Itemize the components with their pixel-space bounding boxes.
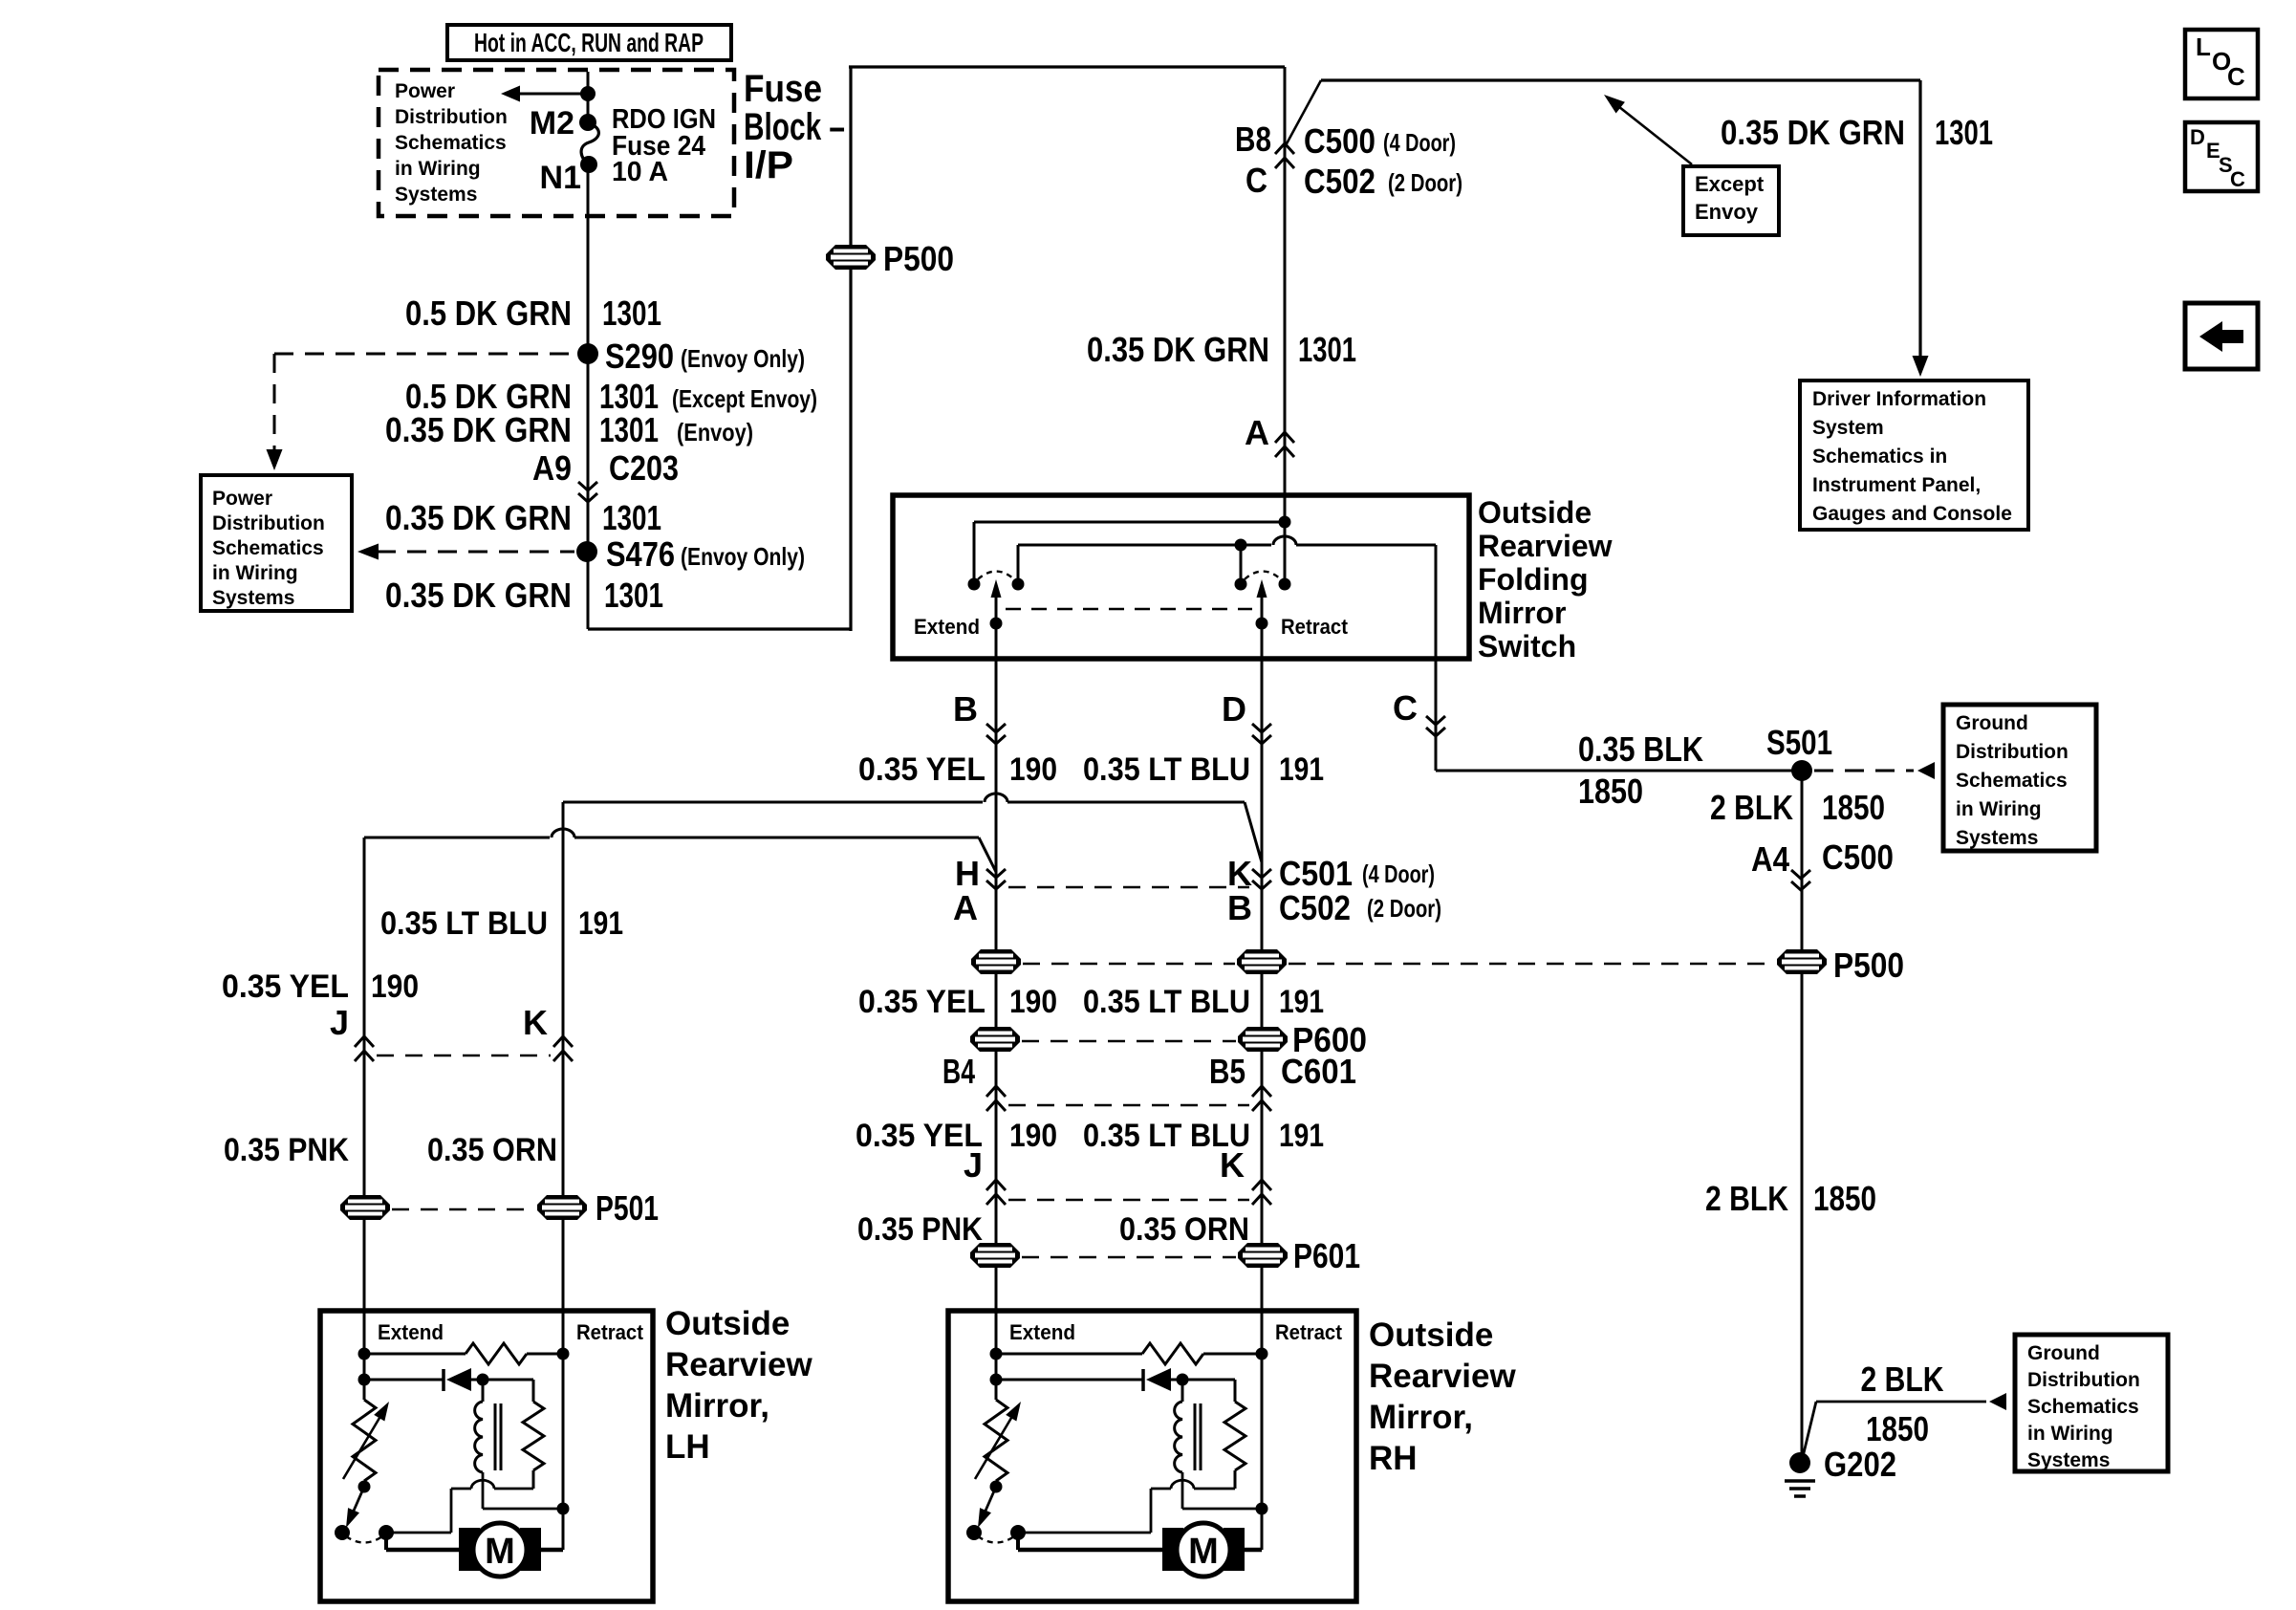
- label: 0.35 DK GRN 1301 (bottom): [385, 576, 663, 615]
- wire: coil to retract (RH): [1182, 1472, 1262, 1509]
- splice S501: [1766, 723, 1832, 781]
- svg-text:Distribution: Distribution: [1956, 741, 2069, 763]
- label: 2 BLK 1850 (lower): [1705, 1179, 1876, 1218]
- svg-text:B5: B5: [1209, 1052, 1245, 1091]
- relay coil (LH): [475, 1380, 501, 1472]
- switch contacts extend: [968, 578, 1025, 591]
- wire: YEL branch rail to LH (lower): [364, 829, 996, 872]
- svg-text:Fuse: Fuse: [744, 68, 822, 110]
- svg-text:0.35 DK GRN: 0.35 DK GRN: [385, 498, 572, 537]
- svg-text:Schematics: Schematics: [212, 537, 324, 559]
- connector P500 pass-through (right): [1237, 949, 1287, 974]
- connector P501 (left): [340, 1195, 390, 1220]
- svg-text:0.35 YEL: 0.35 YEL: [858, 984, 986, 1020]
- label Retract (switch): [1281, 615, 1349, 639]
- connector half chevron B: [986, 724, 1006, 744]
- svg-text:Extend: Extend: [1009, 1320, 1075, 1344]
- svg-text:H: H: [955, 854, 980, 893]
- wire: extend feed inside LH: [358, 1311, 371, 1400]
- label: 0.35 YEL 190 (LH): [222, 968, 419, 1005]
- wire: bottom jog from fuse trunk to riser: [588, 627, 851, 630]
- wire: dashed branch from S476 to power distribution: [357, 544, 574, 560]
- svg-text:J: J: [964, 1145, 983, 1185]
- svg-text:K: K: [1220, 1145, 1245, 1185]
- svg-text:C: C: [1393, 688, 1418, 728]
- svg-text:190: 190: [1009, 1118, 1057, 1154]
- label: C501 (4 Door) / C502 (2 Door): [1279, 854, 1441, 927]
- pin label B: [953, 689, 978, 729]
- svg-text:Block –: Block –: [744, 106, 845, 148]
- wire: retract feed inside RH: [1256, 1311, 1268, 1550]
- svg-text:0.35 DK GRN: 0.35 DK GRN: [385, 410, 572, 449]
- label: 0.5 DK GRN 1301 (top): [405, 294, 661, 333]
- svg-text:Rearview: Rearview: [1478, 529, 1613, 563]
- label: 0.35 YEL 190 / 0.35 LT BLU 191 (row 1): [858, 751, 1324, 788]
- box: Driver Information System Schematics: [1800, 381, 2028, 530]
- label Extend (switch): [914, 615, 980, 639]
- connector C601 pins B4/B5: [942, 1052, 1356, 1111]
- svg-text:B8: B8: [1235, 120, 1271, 159]
- label: 0.35 DK GRN 1301 (Envoy): [385, 410, 753, 449]
- svg-text:C501: C501: [1279, 854, 1353, 893]
- wire: top right rail to driver information system: [1321, 80, 1929, 377]
- svg-text:191: 191: [578, 905, 623, 942]
- svg-text:190: 190: [1009, 984, 1057, 1020]
- resistor shunt (RH): [1182, 1380, 1245, 1489]
- svg-text:A: A: [1245, 413, 1269, 452]
- wire: dashed branch from S290 to power distribution: [267, 354, 576, 470]
- connector P601 (right): [1238, 1236, 1360, 1275]
- label: Fuse Block - I/P: [744, 68, 845, 186]
- wire: switch output D (0.35 LT BLU): [1261, 623, 1264, 906]
- resistor bridge (RH): [996, 1343, 1262, 1364]
- svg-text:(Envoy): (Envoy): [677, 418, 753, 446]
- svg-text:L: L: [2196, 33, 2211, 61]
- svg-text:C: C: [1245, 161, 1267, 200]
- svg-text:(4 Door): (4 Door): [1383, 128, 1456, 157]
- label: 0.35 PNK / 0.35 ORN (LH): [224, 1132, 557, 1168]
- wire: LT BLU branch rail to LH (upper): [563, 794, 1262, 862]
- svg-text:P501: P501: [596, 1188, 659, 1228]
- label: RDO IGN Fuse 24 10 A: [612, 104, 716, 187]
- connector P600 (left): [970, 1027, 1020, 1052]
- svg-text:2 BLK: 2 BLK: [1705, 1179, 1788, 1218]
- svg-text:0.35 PNK: 0.35 PNK: [857, 1211, 983, 1248]
- label: 2 BLK 1850 (branch): [1861, 1360, 1944, 1448]
- connector RH mirror pins J/K: [964, 1145, 1271, 1205]
- svg-text:2 BLK: 2 BLK: [1861, 1360, 1944, 1399]
- svg-text:System: System: [1812, 417, 1884, 439]
- svg-text:Driver Information: Driver Information: [1812, 388, 1986, 410]
- svg-text:190: 190: [1009, 751, 1057, 788]
- svg-text:(2 Door): (2 Door): [1367, 894, 1441, 923]
- wire: branch to ground distribution (lower): [1802, 1393, 2006, 1461]
- svg-text:Outside: Outside: [665, 1305, 790, 1342]
- box: Ground Distribution Schematics (lower): [2015, 1335, 2168, 1471]
- wire: P500 dashed link: [1023, 963, 1774, 966]
- resistor bridge (LH): [364, 1343, 563, 1364]
- svg-text:0.35 ORN: 0.35 ORN: [427, 1132, 557, 1168]
- wire: switch feed bus (lower) with hop to C output: [1018, 536, 1436, 584]
- svg-text:0.35 YEL: 0.35 YEL: [222, 968, 349, 1005]
- svg-text:Schematics: Schematics: [1956, 770, 2068, 792]
- wire: retract to motor (RH): [1243, 1548, 1262, 1553]
- label: Power Distribution Schematics in Wiring Systems (fuse block): [395, 80, 508, 206]
- svg-text:1301: 1301: [1935, 113, 1993, 152]
- svg-text:1850: 1850: [1822, 788, 1885, 827]
- label: Outside Rearview Mirror LH: [665, 1305, 812, 1466]
- svg-text:Rearview: Rearview: [1369, 1358, 1516, 1395]
- wire: fuse output vertical 0.5 DK GRN: [587, 164, 590, 629]
- box: Outside Rearview Mirror LH: [320, 1311, 653, 1601]
- svg-text:D: D: [1222, 689, 1246, 729]
- svg-text:C500: C500: [1822, 838, 1894, 877]
- wire: left riser up to top rail: [849, 66, 852, 631]
- svg-text:S476: S476: [606, 534, 675, 574]
- label: 0.35 BLK 1850: [1578, 729, 1703, 811]
- svg-text:Rearview: Rearview: [665, 1346, 812, 1383]
- feedback potentiometer (RH): [975, 1400, 1021, 1493]
- svg-text:(Except Envoy): (Except Envoy): [672, 384, 817, 413]
- svg-text:C203: C203: [609, 448, 679, 488]
- svg-text:B: B: [1227, 888, 1252, 927]
- relay coil (RH): [1175, 1380, 1201, 1472]
- svg-text:(4 Door): (4 Door): [1362, 859, 1435, 888]
- wire: switch output B (0.35 YEL): [995, 623, 998, 906]
- svg-text:S501: S501: [1766, 723, 1832, 762]
- svg-text:191: 191: [1279, 751, 1324, 788]
- diode (LH): [364, 1368, 489, 1391]
- box: Outside Rearview Mirror RH: [948, 1311, 1356, 1601]
- svg-text:M: M: [1188, 1532, 1219, 1572]
- svg-text:K: K: [523, 1003, 548, 1042]
- connector C500 pin B8 / C502 pin C: [1235, 120, 1462, 201]
- svg-text:Gauges and Console: Gauges and Console: [1812, 503, 2012, 525]
- wire: switch feed bus (upper): [974, 516, 1291, 585]
- ground G202: [1785, 1445, 1896, 1496]
- wiper arm (LH): [346, 1487, 364, 1528]
- wire: coil to retract (LH): [483, 1472, 563, 1509]
- pin M2 label: [530, 105, 574, 141]
- svg-text:Mirror: Mirror: [1478, 596, 1566, 630]
- svg-text:Hot in ACC, RUN and RAP: Hot in ACC, RUN and RAP: [474, 28, 704, 57]
- fuse block dashed boundary box: [379, 70, 734, 216]
- svg-text:Instrument Panel,: Instrument Panel,: [1812, 474, 1981, 496]
- switch arm retract: [1256, 579, 1268, 630]
- wire: LT BLU column to LH mirror: [562, 802, 565, 1311]
- feedback potentiometer (LH): [343, 1400, 389, 1493]
- motor M (LH): [459, 1523, 541, 1577]
- svg-text:C502: C502: [1279, 888, 1351, 927]
- label Extend (RH mirror): [1009, 1320, 1075, 1344]
- label Retract (RH mirror): [1275, 1320, 1343, 1344]
- label Extend (LH mirror): [378, 1320, 444, 1344]
- svg-text:J: J: [330, 1003, 349, 1042]
- wiper contacts (LH): [335, 1525, 394, 1543]
- connector half chevron D: [1252, 724, 1271, 744]
- svg-text:G202: G202: [1824, 1445, 1896, 1484]
- wire: fuse feed vertical into fuse: [587, 72, 590, 122]
- label: 0.35 LT BLU 191 (LH): [380, 905, 623, 942]
- svg-text:0.35 YEL: 0.35 YEL: [858, 751, 986, 788]
- svg-text:Systems: Systems: [395, 184, 477, 206]
- svg-text:1301: 1301: [599, 410, 659, 449]
- svg-text:A: A: [953, 888, 978, 927]
- label: 0.35 DK GRN 1301 (top right): [1721, 113, 1993, 152]
- wire: ground trunk 2 BLK: [1801, 771, 1804, 1463]
- svg-text:P500: P500: [883, 239, 954, 278]
- svg-text:Power: Power: [395, 80, 455, 102]
- legend box DESC: [2185, 122, 2258, 191]
- svg-text:0.35 BLK: 0.35 BLK: [1578, 729, 1703, 769]
- wire: YEL column to LH mirror: [363, 838, 366, 1311]
- wire: P501 dashed link: [392, 1208, 535, 1211]
- connector C501 pin H / C502 pin A: [953, 854, 1006, 927]
- svg-text:Envoy: Envoy: [1695, 200, 1759, 224]
- svg-text:Retract: Retract: [576, 1320, 644, 1344]
- svg-text:M: M: [485, 1532, 515, 1572]
- svg-text:Distribution: Distribution: [395, 106, 508, 128]
- svg-text:Schematics: Schematics: [2027, 1396, 2139, 1418]
- label: Outside Rearview Mirror RH: [1369, 1316, 1516, 1477]
- svg-text:1301: 1301: [1298, 330, 1356, 369]
- wire: riser to extend contact: [1284, 522, 1287, 584]
- svg-text:I/P: I/P: [744, 144, 793, 186]
- svg-text:(2 Door): (2 Door): [1388, 168, 1462, 197]
- svg-text:1301: 1301: [602, 294, 661, 333]
- splice S290: [577, 337, 805, 376]
- svg-text:C: C: [2230, 167, 2245, 191]
- connector P600 (right): [1238, 1020, 1367, 1059]
- svg-text:C500: C500: [1304, 121, 1375, 161]
- svg-text:P601: P601: [1293, 1236, 1360, 1275]
- wire: retract to motor (LH): [539, 1548, 563, 1553]
- svg-text:C601: C601: [1281, 1052, 1356, 1091]
- connector half chevron C: [1426, 716, 1445, 736]
- fuse F24 RDO IGN element: [579, 114, 598, 173]
- box: Except Envoy: [1683, 166, 1779, 235]
- svg-text:in Wiring: in Wiring: [2027, 1423, 2113, 1445]
- svg-text:0.35 DK GRN: 0.35 DK GRN: [1721, 113, 1905, 152]
- diode (RH): [996, 1368, 1189, 1391]
- wire: extend feed inside RH: [990, 1311, 1003, 1400]
- connector P500 pass-through (left): [971, 949, 1021, 974]
- label: 0.35 DK GRN 1301 (below C203): [385, 498, 661, 537]
- svg-text:Retract: Retract: [1275, 1320, 1343, 1344]
- svg-text:1850: 1850: [1578, 772, 1643, 811]
- wire: contact to resistor shunt (RH): [1018, 1480, 1235, 1533]
- svg-text:Power: Power: [212, 488, 272, 510]
- connector C500 pin A4: [1751, 838, 1894, 890]
- wire: branch arrow to power distribution (left): [501, 86, 596, 102]
- wire: contact to motor (RH): [1018, 1533, 1164, 1550]
- wiper contacts (RH): [966, 1525, 1026, 1543]
- svg-text:2 BLK: 2 BLK: [1710, 788, 1793, 827]
- wire: P600 dashed link: [1022, 1040, 1236, 1043]
- label: 0.35 PNK / 0.35 ORN (center): [857, 1211, 1249, 1248]
- svg-text:Outside: Outside: [1478, 495, 1592, 530]
- switch wiper arc retract: [1245, 572, 1281, 580]
- connector C501 pin K / C502 pin B: [1227, 854, 1271, 927]
- svg-text:S290: S290: [605, 337, 674, 376]
- label: 0.35 YEL 190 / 0.35 LT BLU 191 (row 3): [856, 1118, 1324, 1154]
- box: Power Distribution Schematics in Wiring Systems (left): [201, 475, 352, 611]
- svg-text:M2: M2: [530, 105, 574, 141]
- pin label C: [1393, 688, 1418, 728]
- svg-text:Folding: Folding: [1478, 562, 1589, 597]
- wire: contact to resistor shunt (LH): [386, 1480, 533, 1533]
- svg-text:0.35 DK GRN: 0.35 DK GRN: [1087, 330, 1269, 369]
- label: Outside Rearview Folding Mirror Switch: [1478, 495, 1613, 664]
- svg-text:191: 191: [1279, 1118, 1324, 1154]
- wire: P601 dashed link: [1022, 1256, 1236, 1259]
- svg-text:RH: RH: [1369, 1440, 1418, 1477]
- svg-text:0.5 DK GRN: 0.5 DK GRN: [405, 294, 572, 333]
- wire: riser from top rail to folding mirror switch: [1284, 67, 1287, 524]
- legend box back-arrow: [2185, 303, 2258, 369]
- svg-text:Distribution: Distribution: [2027, 1369, 2140, 1391]
- svg-text:1301: 1301: [602, 498, 661, 537]
- pin N1 label: [540, 160, 581, 196]
- svg-text:Ground: Ground: [1956, 712, 2028, 734]
- connector C500 pin A (riser): [1245, 413, 1294, 457]
- box: Outside Rearview Folding Mirror Switch: [893, 495, 1469, 659]
- svg-text:C: C: [2227, 62, 2245, 91]
- svg-text:A9: A9: [532, 448, 572, 488]
- svg-text:(Envoy Only): (Envoy Only): [681, 344, 805, 373]
- switch wiper arc extend: [978, 572, 1014, 580]
- svg-text:Extend: Extend: [914, 615, 980, 639]
- wire: switch output C to S501: [1436, 545, 1802, 771]
- svg-text:191: 191: [1279, 984, 1324, 1020]
- wire: connector boundary dashed H-K: [1008, 886, 1249, 889]
- wire: retract feed inside LH: [557, 1311, 570, 1550]
- switch arm extend: [990, 579, 1003, 630]
- wire: LT BLU column to RH mirror: [1261, 897, 1264, 1311]
- connector P601 (left): [970, 1243, 1020, 1268]
- legend box LOC: [2185, 30, 2258, 98]
- svg-text:B: B: [953, 689, 978, 729]
- svg-text:in Wiring: in Wiring: [1956, 798, 2042, 820]
- svg-text:B4: B4: [942, 1052, 975, 1091]
- connector P500 (top left): [826, 239, 954, 278]
- svg-text:Mirror,: Mirror,: [665, 1387, 769, 1425]
- svg-text:in Wiring: in Wiring: [212, 562, 298, 584]
- svg-text:0.35 LT BLU: 0.35 LT BLU: [1083, 984, 1250, 1020]
- svg-text:1301: 1301: [604, 576, 663, 615]
- svg-text:Schematics in: Schematics in: [1812, 446, 1947, 468]
- svg-text:Distribution: Distribution: [212, 512, 325, 534]
- svg-text:Schematics: Schematics: [395, 132, 507, 154]
- wire: dashed from S501 to ground distribution: [1814, 762, 1935, 779]
- svg-text:Outside: Outside: [1369, 1316, 1493, 1354]
- svg-text:Retract: Retract: [1281, 615, 1349, 639]
- svg-text:Except: Except: [1695, 172, 1765, 196]
- svg-text:in Wiring: in Wiring: [395, 158, 481, 180]
- wire: YEL column to RH mirror: [995, 897, 998, 1311]
- wire: diagonal from B8 to DIS branch rail: [1285, 80, 1321, 147]
- svg-text:Systems: Systems: [1956, 827, 2038, 849]
- switch mechanical link dashed: [1006, 608, 1252, 611]
- svg-text:LH: LH: [665, 1428, 710, 1466]
- splice S476: [576, 534, 805, 574]
- svg-text:P500: P500: [1833, 946, 1904, 985]
- svg-text:C502: C502: [1304, 162, 1375, 201]
- svg-text:Systems: Systems: [212, 587, 294, 609]
- svg-text:D: D: [2190, 125, 2205, 149]
- svg-text:(Envoy Only): (Envoy Only): [681, 542, 805, 571]
- resistor shunt (LH): [483, 1380, 544, 1489]
- wiper arm (RH): [978, 1487, 996, 1528]
- svg-text:0.35 LT BLU: 0.35 LT BLU: [380, 905, 548, 942]
- connector C203 pin A9: [532, 448, 679, 502]
- svg-text:N1: N1: [540, 160, 581, 196]
- svg-text:0.35 LT BLU: 0.35 LT BLU: [1083, 751, 1250, 788]
- connector P501 (right): [537, 1188, 659, 1228]
- svg-text:A4: A4: [1751, 839, 1789, 879]
- label Retract (LH mirror): [576, 1320, 644, 1344]
- box: Ground Distribution Schematics (upper): [1943, 705, 2096, 851]
- wire: contact to motor (LH): [386, 1533, 461, 1550]
- box: Hot in ACC, RUN and RAP: [447, 25, 731, 60]
- label: 0.35 YEL 190 / 0.35 LT BLU 191 (row 2): [858, 984, 1324, 1020]
- svg-text:10 A: 10 A: [612, 157, 668, 187]
- svg-text:Ground: Ground: [2027, 1342, 2100, 1364]
- connector LH mirror pins J/K: [330, 1003, 573, 1061]
- svg-text:190: 190: [371, 968, 419, 1005]
- motor M (RH): [1162, 1523, 1245, 1577]
- label: 0.35 DK GRN 1301 (riser): [1087, 330, 1356, 369]
- svg-text:Extend: Extend: [378, 1320, 444, 1344]
- label: 2 BLK 1850 (upper): [1710, 788, 1885, 827]
- svg-text:0.35 PNK: 0.35 PNK: [224, 1132, 349, 1168]
- connector P500 (ground trunk): [1777, 946, 1904, 985]
- svg-text:1850: 1850: [1813, 1179, 1876, 1218]
- arrow: Except Envoy callout: [1604, 95, 1692, 164]
- svg-text:1850: 1850: [1866, 1409, 1929, 1448]
- svg-text:0.35 DK GRN: 0.35 DK GRN: [385, 576, 572, 615]
- wire: top rail to B8: [849, 65, 1285, 68]
- svg-text:0.35 ORN: 0.35 ORN: [1119, 1211, 1249, 1248]
- label: 0.5 DK GRN 1301 (Except Envoy): [405, 377, 817, 416]
- switch contacts retract: [1235, 578, 1291, 591]
- svg-text:Mirror,: Mirror,: [1369, 1399, 1473, 1436]
- pin label D: [1222, 689, 1246, 729]
- svg-text:Systems: Systems: [2027, 1449, 2110, 1471]
- svg-text:Switch: Switch: [1478, 629, 1576, 664]
